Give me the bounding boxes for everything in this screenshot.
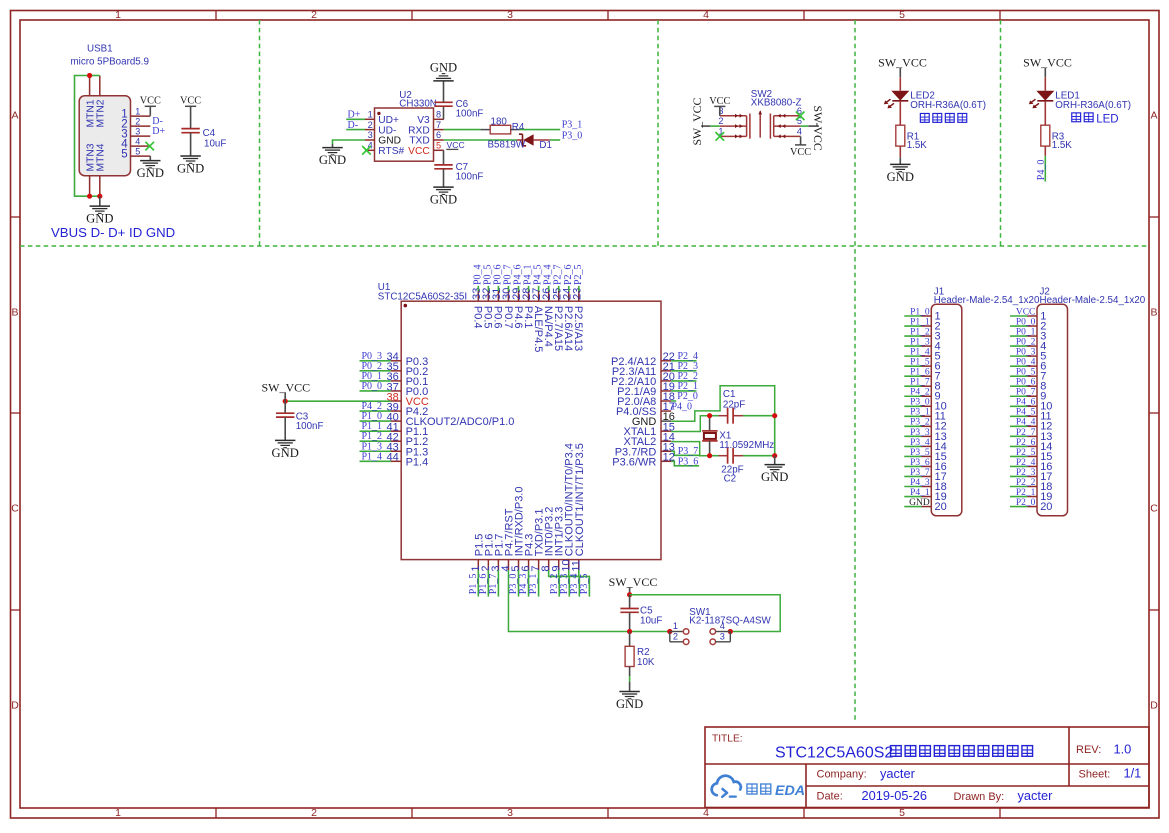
- svg-text:GND: GND: [86, 212, 113, 226]
- wire: [360, 370, 391, 372]
- wire: [904, 375, 921, 377]
- U1 pin 11 CLKOUT1/INT/T1/P3.5: [570, 443, 585, 571]
- junction: [772, 453, 777, 458]
- USB1 pin MTN4: [96, 143, 107, 196]
- svg-text:P3_7: P3_7: [678, 446, 699, 457]
- svg-text:Sheet:: Sheet:: [1079, 769, 1111, 781]
- svg-text:P2_0: P2_0: [1016, 498, 1036, 508]
- frame column labels: [115, 9, 905, 819]
- svg-text:3: 3: [507, 9, 513, 21]
- wire: [743, 415, 775, 417]
- wire: [904, 355, 921, 357]
- svg-text:yacter: yacter: [880, 766, 916, 781]
- svg-text:P2_5: P2_5: [1016, 448, 1036, 458]
- U1 pin 31 P0.6: [491, 288, 504, 329]
- svg-text:RTS#: RTS#: [378, 146, 404, 157]
- USB1 pin 4: [121, 136, 150, 150]
- wire: [904, 425, 921, 427]
- wire: [1044, 77, 1046, 90]
- U1 pin 33 P0.4: [471, 288, 484, 329]
- svg-text:7: 7: [436, 120, 441, 130]
- svg-text:20: 20: [1040, 501, 1052, 513]
- wire: [904, 506, 921, 508]
- U2 pin 5 VCC: [408, 141, 444, 158]
- J1 pin 15: [922, 451, 947, 463]
- wire: [671, 360, 696, 362]
- svg-text:B: B: [1150, 307, 1157, 319]
- svg-text:P3_5: P3_5: [579, 574, 590, 595]
- wire: [538, 570, 540, 597]
- wire: [1010, 345, 1027, 347]
- wire: [671, 380, 696, 382]
- U1 pin 1 P1.5: [470, 534, 485, 572]
- wire: [149, 106, 151, 116]
- J1 pin 18: [922, 481, 947, 493]
- USB1 pin MTN1: [85, 76, 96, 128]
- svg-text:VBUS D- D+ ID GND: VBUS D- D+ ID GND: [51, 225, 175, 240]
- wire: [346, 118, 365, 120]
- svg-text:SW_VCC: SW_VCC: [878, 56, 927, 70]
- wire: [1044, 101, 1046, 125]
- wire: [75, 76, 101, 197]
- svg-text:P3_3: P3_3: [910, 428, 930, 438]
- svg-text:GND: GND: [430, 193, 457, 207]
- wire: [1010, 315, 1027, 317]
- svg-text:3: 3: [135, 126, 140, 136]
- wire: [443, 81, 445, 102]
- svg-text:P3_1: P3_1: [562, 120, 583, 131]
- wire: [671, 390, 696, 392]
- wire: [487, 286, 489, 291]
- svg-text:3: 3: [720, 632, 725, 642]
- J1 pin 4: [922, 340, 941, 352]
- ground GND (C3): [272, 440, 299, 460]
- wire: [579, 570, 590, 597]
- U1 pin 15 XTAL1: [623, 421, 674, 438]
- wire: [1010, 355, 1027, 357]
- svg-text:1: 1: [368, 110, 373, 120]
- resistor R2 10K: [625, 646, 655, 668]
- svg-text:REV:: REV:: [1076, 744, 1101, 756]
- ground GND (U2 pin3): [319, 148, 346, 168]
- svg-text:P2_6: P2_6: [1016, 438, 1036, 448]
- U1 pin 29 P4.6: [511, 288, 524, 329]
- power VCC (U2 pin5): [446, 140, 464, 150]
- svg-text:1: 1: [135, 106, 140, 116]
- wire: [360, 430, 391, 432]
- wire: [360, 410, 391, 412]
- U1 pin 32 P0.5: [481, 288, 494, 329]
- svg-text:XKB8080-Z: XKB8080-Z: [751, 98, 802, 109]
- wire: [904, 395, 921, 397]
- U1 pin 27 ALE/P4.5: [531, 288, 544, 353]
- J1 pin 1: [922, 310, 941, 322]
- U1 pin 4 P4.7/RST: [500, 508, 515, 571]
- wire: [743, 455, 775, 457]
- svg-text:D1: D1: [539, 140, 552, 151]
- J1 pin 7: [922, 371, 941, 383]
- U1 pin 2 P1.6: [480, 534, 495, 572]
- svg-text:P1_5: P1_5: [910, 358, 930, 368]
- wire: [559, 570, 570, 597]
- svg-text:1.0: 1.0: [1114, 741, 1132, 756]
- ground GND (crystal): [761, 465, 788, 485]
- U1 pin 19 P2.1/A9: [617, 381, 675, 398]
- J2 pin 17: [1027, 471, 1052, 483]
- svg-text:P3_6: P3_6: [678, 456, 699, 467]
- U1 pin 34 P0.3: [387, 351, 429, 368]
- svg-text:P0_5: P0_5: [1016, 368, 1036, 378]
- wire: [497, 286, 499, 291]
- J2 pin 10: [1027, 401, 1052, 413]
- svg-text:P1_6: P1_6: [910, 368, 930, 378]
- wire: [1010, 506, 1027, 508]
- USB1 pin MTN2: [96, 76, 107, 128]
- wire: [528, 286, 530, 291]
- svg-text:GND: GND: [319, 153, 346, 167]
- svg-text:4: 4: [135, 136, 140, 146]
- wire: [629, 595, 631, 609]
- capacitor C1 22pF: [719, 389, 746, 424]
- wire: [899, 77, 901, 90]
- wire: [671, 370, 696, 372]
- wire: [904, 315, 921, 317]
- svg-text:P3.6/WR: P3.6/WR: [612, 456, 656, 468]
- U1 pin 7 TXD/P3.1: [530, 509, 545, 572]
- wire: [904, 365, 921, 367]
- wire: [360, 390, 391, 392]
- U1 pin 28 P4.1: [521, 288, 534, 329]
- wire: [360, 380, 391, 382]
- wire: [443, 106, 445, 119]
- wire: [550, 139, 560, 141]
- U1 pin 42 P1.2: [387, 432, 429, 449]
- J1 pin 9: [922, 391, 941, 403]
- J1 pin 6: [922, 361, 941, 373]
- svg-text:P2_4: P2_4: [1016, 458, 1036, 468]
- U1 pin 24 P2.6/A14: [561, 288, 574, 352]
- J2 pin 20: [1027, 501, 1052, 513]
- U2 pin 7 RXD: [408, 120, 444, 137]
- svg-text:P1_3: P1_3: [910, 337, 930, 347]
- wire: [568, 286, 570, 291]
- wire: [1010, 455, 1027, 457]
- svg-text:P0_7: P0_7: [1016, 388, 1036, 398]
- U1 pin 41 P1.1: [387, 421, 429, 438]
- power VCC (SW2 pin4): [790, 145, 811, 158]
- USB1 pin 2: [121, 116, 150, 130]
- U1 pin 3 P1.7: [490, 534, 505, 572]
- wire: [1044, 146, 1046, 156]
- wire: [719, 106, 721, 115]
- wire: [904, 455, 921, 457]
- svg-text:P4_6: P4_6: [1016, 398, 1036, 408]
- frame row labels: [11, 110, 1158, 712]
- svg-text:B5819W: B5819W: [488, 139, 526, 150]
- power VCC (SW2 pin3): [709, 96, 730, 107]
- wire: [285, 400, 391, 402]
- svg-text:Date:: Date:: [817, 791, 843, 803]
- wire: [284, 392, 286, 401]
- svg-text:P4_4: P4_4: [1016, 418, 1036, 428]
- svg-text:P2_3: P2_3: [1016, 468, 1036, 478]
- wire: [1010, 435, 1027, 437]
- svg-text:1.5K: 1.5K: [1052, 140, 1073, 151]
- ground GND (C6): [430, 61, 457, 81]
- wire: [671, 451, 699, 455]
- ground GND (R1): [887, 164, 914, 184]
- svg-text:micro 5PBoard5.9: micro 5PBoard5.9: [71, 56, 149, 67]
- svg-text:100nF: 100nF: [296, 421, 324, 432]
- svg-text:P4_0: P4_0: [1036, 160, 1047, 181]
- junction: [627, 592, 632, 597]
- wire: [444, 139, 517, 141]
- wire: [360, 460, 391, 462]
- J1 pin 13: [922, 431, 947, 443]
- U1 pin 26 NA/P4.4: [541, 288, 554, 347]
- junction: [87, 194, 92, 199]
- svg-text:VCC: VCC: [140, 96, 161, 107]
- svg-text:GND: GND: [887, 170, 914, 184]
- wire: [1010, 395, 1027, 397]
- svg-text:180: 180: [491, 117, 508, 128]
- U1 pin 18 P2.0/A8: [617, 391, 675, 408]
- svg-text:GND: GND: [137, 166, 164, 180]
- wire: [629, 682, 631, 692]
- svg-text:GND: GND: [272, 446, 299, 460]
- wire: [149, 156, 151, 160]
- U1 pin 20 P2.2/A10: [611, 371, 675, 388]
- junction: [728, 629, 733, 634]
- svg-text:3: 3: [507, 807, 513, 819]
- J2 pin 2: [1027, 320, 1046, 332]
- U1 pin 37 P0.0: [387, 381, 429, 398]
- svg-text:P4_2: P4_2: [910, 388, 930, 398]
- svg-text:LED: LED: [1096, 114, 1118, 126]
- wire: [90, 75, 100, 77]
- wire: [284, 417, 286, 440]
- svg-text:P1_7: P1_7: [910, 378, 930, 388]
- connector J1 Header-Male-2.54_1x20 body: [931, 304, 962, 516]
- no-connect X (U2 pin4): [362, 146, 371, 155]
- wire: [710, 455, 719, 457]
- U2 pin 1 UD+: [365, 110, 399, 127]
- svg-text:R4: R4: [512, 122, 525, 133]
- wire: [904, 486, 921, 488]
- wire: [899, 101, 901, 125]
- wire: [538, 286, 540, 291]
- wire: [190, 133, 192, 156]
- svg-text:5: 5: [121, 149, 127, 161]
- svg-text:5: 5: [899, 9, 905, 21]
- svg-text:VCC: VCC: [1016, 307, 1036, 317]
- svg-text:11: 11: [570, 560, 582, 571]
- svg-text:P1_4: P1_4: [362, 451, 383, 462]
- wire: [904, 325, 921, 327]
- svg-text:GND: GND: [909, 498, 930, 508]
- wire: [1010, 475, 1027, 477]
- J2 pin 4: [1027, 340, 1046, 352]
- no-connect X (USB pin4): [145, 142, 154, 151]
- wire: [710, 125, 720, 127]
- J1 pin 17: [922, 471, 947, 483]
- svg-text:C: C: [11, 503, 19, 515]
- svg-text:SW_VCC: SW_VCC: [690, 98, 704, 146]
- wire: [1010, 375, 1027, 377]
- U1 pin 6 P4.3: [520, 534, 535, 572]
- wire: [99, 196, 101, 206]
- wire: [578, 286, 580, 291]
- U2 pin 4 RTS#: [365, 141, 404, 158]
- wire: [1010, 405, 1027, 407]
- wire: [520, 129, 561, 131]
- wire: [774, 456, 776, 465]
- svg-text:P3_0: P3_0: [562, 130, 583, 141]
- LED LED1 ORH-R36A(0.6T): [1029, 91, 1131, 111]
- svg-text:P4_5: P4_5: [1016, 408, 1036, 418]
- svg-text:Company:: Company:: [817, 768, 867, 780]
- wire: [899, 68, 901, 78]
- no-connect X (SW2 pin1): [716, 132, 725, 141]
- wire: [1010, 496, 1027, 498]
- wire: [360, 440, 391, 442]
- svg-text:P1_1: P1_1: [910, 317, 930, 327]
- wire: [904, 445, 921, 447]
- svg-text:P3_7: P3_7: [910, 468, 930, 478]
- svg-text:2: 2: [673, 632, 678, 642]
- svg-text:P0_4: P0_4: [1016, 358, 1036, 368]
- svg-text:P3_1: P3_1: [910, 408, 930, 418]
- IC U2 CH330N body: [375, 108, 434, 161]
- capacitor C5 10uF: [620, 605, 662, 626]
- J1 pin 12: [922, 421, 947, 433]
- ground GND (C4): [177, 156, 204, 176]
- junction: [707, 453, 712, 458]
- svg-text:2: 2: [368, 120, 373, 130]
- U1 pin 30 P0.7: [501, 288, 514, 329]
- wire: [346, 129, 365, 131]
- svg-text:Drawn By:: Drawn By:: [954, 791, 1005, 803]
- svg-text:P0_2: P0_2: [1016, 337, 1036, 347]
- svg-text:D+: D+: [152, 126, 165, 137]
- svg-text:D-: D-: [348, 120, 359, 131]
- resistor R1 1.5K: [896, 125, 928, 151]
- svg-text:SW_VCC: SW_VCC: [1023, 56, 1072, 70]
- wire: [443, 150, 445, 165]
- title block frame: [705, 727, 1149, 808]
- U1 pin 40 CLKOUT2/ADC0/P1.0: [387, 411, 515, 428]
- svg-text:D: D: [11, 700, 19, 712]
- svg-text:RXD: RXD: [408, 125, 430, 136]
- wire: [518, 570, 520, 597]
- wire: [1010, 415, 1027, 417]
- svg-text:B: B: [11, 307, 18, 319]
- svg-text:GND: GND: [177, 162, 204, 176]
- wire: [904, 345, 921, 347]
- U1 pin 14 XTAL2: [623, 431, 674, 448]
- U1 pin 39 P4.2: [387, 401, 429, 418]
- wire (U1 pin16 GND net): [671, 386, 775, 422]
- svg-text:TITLE:: TITLE:: [712, 734, 743, 745]
- capacitor C7: [434, 162, 483, 183]
- wire: [332, 144, 334, 147]
- svg-text:5: 5: [436, 141, 441, 151]
- J2 pin 16: [1027, 461, 1052, 473]
- J2 pin 13: [1027, 431, 1052, 443]
- svg-text:UD-: UD-: [378, 125, 396, 136]
- USB connector USB1: [79, 96, 130, 176]
- svg-text:P1_2: P1_2: [910, 327, 930, 337]
- svg-text:20: 20: [935, 501, 947, 513]
- wire: [1010, 335, 1027, 337]
- svg-text:MTN4: MTN4: [96, 143, 107, 171]
- wire: [487, 570, 489, 597]
- svg-text:4: 4: [797, 127, 802, 137]
- wire: [518, 286, 520, 291]
- LED LED2 ORH-R36A(0.6T): [884, 91, 986, 111]
- J2 pin 6: [1027, 361, 1046, 373]
- svg-text:P4_1: P4_1: [910, 488, 930, 498]
- IC U1 STC12C5A60S2-35I body: [401, 301, 661, 559]
- J2 pin 3: [1027, 330, 1046, 342]
- svg-text:CH330N: CH330N: [399, 99, 437, 110]
- svg-text:1: 1: [115, 807, 121, 819]
- wire: [528, 570, 530, 597]
- svg-text:ORH-R36A(0.6T): ORH-R36A(0.6T): [910, 100, 986, 111]
- svg-text:P3_6: P3_6: [910, 458, 930, 468]
- svg-text:4: 4: [703, 807, 709, 819]
- svg-text:C2: C2: [724, 474, 737, 485]
- wire: [629, 632, 631, 647]
- svg-text:Header-Male-2.54_1x20: Header-Male-2.54_1x20: [934, 295, 1040, 306]
- J2 pin 18: [1027, 481, 1052, 493]
- svg-text:P3_0: P3_0: [910, 398, 930, 408]
- capacitor C2 22pF: [719, 448, 744, 485]
- svg-text:5: 5: [135, 146, 140, 156]
- U1 pin 22 P2.4/A12: [611, 351, 675, 368]
- svg-text:2: 2: [311, 9, 317, 21]
- svg-text:MTN2: MTN2: [96, 99, 107, 127]
- section separator dashed line vertical 2: [657, 20, 659, 246]
- svg-text:P0_6: P0_6: [1016, 378, 1036, 388]
- svg-text:GND: GND: [616, 697, 643, 711]
- U1 pin 21 P2.3/A11: [612, 361, 675, 378]
- J2 pin 19: [1027, 491, 1052, 503]
- svg-text:23: 23: [571, 288, 583, 300]
- power VCC (USB pin1): [140, 96, 161, 107]
- svg-text:VCC: VCC: [447, 140, 465, 150]
- USB1 pin MTN3: [85, 143, 96, 196]
- svg-text:A: A: [11, 110, 18, 122]
- svg-text:P1_4: P1_4: [910, 348, 930, 358]
- wire: [629, 667, 631, 677]
- svg-text:1.5K: 1.5K: [907, 140, 928, 151]
- USB1 pin 3: [121, 126, 150, 140]
- svg-text:P0_0: P0_0: [1016, 317, 1036, 327]
- J2 pin 1: [1027, 310, 1046, 322]
- U1 pin 36 P0.1: [387, 371, 429, 388]
- U2 pin 8 V3: [417, 110, 444, 127]
- wire: [629, 587, 631, 595]
- no-connect X (SW2 pin6): [796, 112, 805, 121]
- J2 pin 12: [1027, 421, 1052, 433]
- J1 pin 2: [922, 320, 941, 332]
- wire: [360, 450, 391, 452]
- wire: [1010, 445, 1027, 447]
- svg-text:VCC: VCC: [790, 147, 811, 158]
- wire: [1010, 465, 1027, 467]
- svg-text:VCC: VCC: [709, 96, 730, 107]
